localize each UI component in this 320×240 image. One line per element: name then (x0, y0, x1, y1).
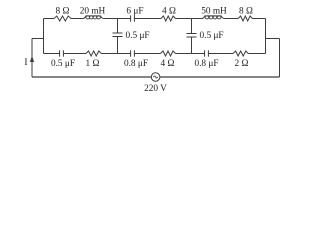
label 0.5 μF (branch 2) (200, 31, 224, 41)
wire: middle segment, 0.5uF cap to 1ohm resistor (64, 53, 87, 55)
label I (24, 58, 27, 68)
current arrow I (pointing up) (30, 56, 34, 63)
svg-text:0.5 μF: 0.5 μF (126, 31, 150, 41)
label 50 mH (201, 7, 227, 17)
capacitor 0.5 μF (vertical branch 2) (187, 34, 197, 38)
resistor 8 Ω (top right) (238, 16, 252, 21)
wire: vertical branch 1 lower lead (capacitor down to middle wire) (117, 37, 119, 54)
wire: outer left vertical (31, 39, 33, 78)
wire: vertical branch 1 upper lead (node A down to capacitor) (117, 19, 119, 34)
svg-text:0.5 μF: 0.5 μF (51, 59, 75, 69)
wire: bottom left segment (32, 76, 151, 78)
svg-text:4 Ω: 4 Ω (161, 59, 175, 69)
wire: top segment between 8ohm resistor and 20mH inductor (71, 18, 83, 20)
resistor 4 Ω (middle) (161, 51, 176, 56)
resistor 4 Ω (top) (161, 16, 176, 21)
capacitor 0.8 μF (middle left) (131, 50, 135, 56)
label 4 Ω (top) (162, 7, 176, 17)
wire: inner right vertical (265, 19, 267, 54)
label 8 Ω (top right) (239, 7, 253, 17)
wire: top segment, 20mH to node A (junction of first 0.5uF branch) to 6uF cap (103, 18, 130, 20)
wire: vertical branch 2 lower lead (capacitor down to middle wire) (191, 37, 193, 54)
label 2 Ω (235, 59, 249, 69)
svg-text:1 Ω: 1 Ω (86, 59, 100, 69)
resistor 8 Ω (top left) (54, 16, 71, 21)
wire: middle segment, left corner to 0.5uF cap (44, 53, 60, 55)
wire: left stub joining outer and inner loop (32, 38, 44, 40)
wire: top segment between 50mH inductor and right 8ohm resistor (224, 18, 238, 20)
svg-text:8 Ω: 8 Ω (56, 7, 70, 17)
label 0.8 μF (middle left) (124, 59, 148, 69)
wire: top right segment to corner (253, 18, 266, 20)
capacitor 0.5 μF (middle branch) (60, 50, 64, 56)
svg-text:0.8 μF: 0.8 μF (124, 59, 148, 69)
svg-text:20 mH: 20 mH (80, 7, 106, 17)
wire: middle segment, 1ohm to junction to 0.8uF cap (101, 53, 130, 55)
wire: outer right vertical (279, 39, 281, 78)
ac source 220 V (circle with sine) (151, 73, 160, 82)
wire: top segment, 4ohm to node B (junction of second 0.5uF branch) to 50mH (176, 18, 203, 20)
label 8 Ω (top left) (56, 7, 70, 17)
svg-text:8 Ω: 8 Ω (239, 7, 253, 17)
svg-text:0.8 μF: 0.8 μF (194, 59, 218, 69)
inductor 20 mH (83, 16, 103, 19)
resistor 1 Ω (86, 51, 101, 56)
svg-text:6 μF: 6 μF (126, 7, 143, 17)
svg-text:220 V: 220 V (144, 84, 167, 94)
wire: right stub joining inner and outer loop (266, 38, 280, 40)
wire: middle segment, 0.8uF cap to 4ohm resistor (135, 53, 161, 55)
label 6 μF (126, 7, 143, 17)
label 0.8 μF (middle right) (194, 59, 218, 69)
resistor 2 Ω (233, 51, 248, 56)
wire: top segment, left corner to R 8ohm (44, 18, 55, 20)
label 20 mH (80, 7, 106, 17)
label 4 Ω (middle) (161, 59, 175, 69)
inductor 50 mH (202, 16, 224, 19)
label 1 Ω (86, 59, 100, 69)
wire: bottom right segment (160, 76, 280, 78)
label 0.5 μF (middle) (51, 59, 75, 69)
svg-text:0.5 μF: 0.5 μF (200, 31, 224, 41)
svg-text:50 mH: 50 mH (201, 7, 227, 17)
capacitor 6 μF (131, 15, 135, 21)
svg-text:I: I (24, 58, 27, 68)
wire: vertical branch 2 upper lead (node B down to capacitor) (191, 19, 193, 34)
svg-text:4 Ω: 4 Ω (162, 7, 176, 17)
wire: top segment, 6uF cap to 4ohm resistor (135, 18, 162, 20)
wire: middle segment, 4ohm to junction to second 0.8uF cap (176, 53, 205, 55)
wire: inner left vertical (43, 19, 45, 54)
svg-text:2 Ω: 2 Ω (235, 59, 249, 69)
wire: middle segment, 0.8uF cap to 2ohm resistor (209, 53, 234, 55)
label 0.5 μF (branch 1) (126, 31, 150, 41)
capacitor 0.5 μF (vertical branch 1) (113, 33, 123, 37)
label 220 V (144, 84, 167, 94)
capacitor 0.8 μF (middle right) (205, 50, 209, 56)
wire: middle right segment to corner (248, 53, 265, 55)
